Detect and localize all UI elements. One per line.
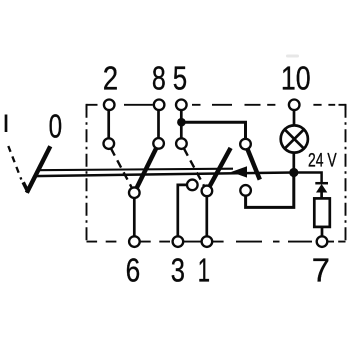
- lever arm: [27, 146, 51, 193]
- wire D to feed junction: [246, 177, 294, 208]
- wire resistor to terminal 7: [321, 227, 324, 236]
- svg-text:2: 2: [103, 59, 118, 96]
- svg-text:8: 8: [152, 59, 166, 96]
- svg-text:6: 6: [126, 251, 141, 288]
- wire terminal 10 to lamp: [293, 110, 296, 126]
- pole 2 lower contact circle: [104, 138, 115, 149]
- pole 5 wire: [180, 110, 183, 139]
- pole 5 lower contact circle: [176, 138, 187, 149]
- dashed blade 2 to 6 (open): [111, 148, 132, 188]
- lever dashed alternate position: [8, 146, 21, 180]
- terminal 2 circle: [104, 100, 115, 111]
- wire 6: [133, 198, 136, 236]
- lever foot: [23, 182, 28, 192]
- feed arrowhead: [231, 166, 247, 177]
- dashed enclosure bottom border: [87, 241, 346, 243]
- blade 8 to 6 (closed): [137, 148, 157, 188]
- contact circle A: [187, 180, 198, 191]
- blade 1 pointing to C (open): [210, 148, 231, 186]
- top border corner stubs: [87, 104, 346, 110]
- terminal 8 circle: [154, 100, 165, 111]
- svg-text:10: 10: [281, 59, 311, 96]
- svg-text:0: 0: [49, 107, 63, 144]
- contact circle 6 upper: [129, 187, 140, 198]
- lamp: [281, 125, 308, 152]
- svg-text:7: 7: [312, 251, 330, 288]
- terminal 10 circle: [289, 100, 300, 111]
- wire B to terminal 1: [205, 196, 208, 236]
- coupling bar upper line: [37, 169, 234, 171]
- contact circle D: [240, 185, 251, 196]
- svg-text:3: 3: [171, 251, 185, 288]
- dashed enclosure right border: [345, 105, 347, 242]
- svg-text:5: 5: [173, 59, 187, 96]
- wire A to terminal 3: [178, 185, 187, 236]
- branch wire from node 5 to contact C: [181, 122, 245, 139]
- resistor R1: [314, 198, 330, 227]
- pole 2 wire: [107, 110, 110, 139]
- terminal 6 circle: [129, 236, 140, 247]
- terminal 3 circle: [173, 236, 184, 247]
- dashed blade 5 to 1 (open): [184, 148, 204, 186]
- svg-text:24 V: 24 V: [308, 151, 337, 172]
- wire diode to resistor: [320, 193, 323, 199]
- wire lamp to junction: [292, 152, 295, 169]
- pole 8 wire: [157, 110, 160, 139]
- dashed enclosure left border: [86, 105, 88, 242]
- faint smudge above label 10: [286, 55, 299, 58]
- svg-text:1: 1: [198, 251, 210, 288]
- pole 8 lower contact circle: [153, 138, 164, 149]
- terminal 1 circle: [202, 236, 213, 247]
- diode D1 triangle: [316, 184, 327, 193]
- diode D1 cathode bar: [315, 182, 328, 185]
- blade C crossing feed line: [248, 149, 260, 180]
- junction node on feed line: [289, 168, 298, 177]
- contact circle B: [202, 186, 213, 197]
- position mark I: [5, 115, 8, 133]
- terminal 7 circle: [317, 236, 328, 247]
- contact circle C: [240, 139, 251, 150]
- dashed enclosure top border: [87, 104, 346, 106]
- terminal 5 circle: [176, 100, 187, 111]
- coupling bar lower line / feed line: [34, 173, 322, 184]
- junction node under terminal 5: [177, 118, 186, 127]
